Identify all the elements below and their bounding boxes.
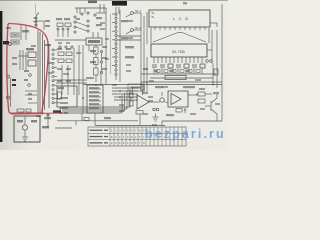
svg-text:S1.1: S1.1	[135, 9, 142, 13]
svg-text:L C D: L C D	[173, 17, 190, 21]
svg-text:ICL 7106: ICL 7106	[172, 50, 185, 54]
svg-text:S1.2: S1.2	[135, 26, 142, 30]
svg-text:bezpari.ru: bezpari.ru	[145, 127, 226, 141]
